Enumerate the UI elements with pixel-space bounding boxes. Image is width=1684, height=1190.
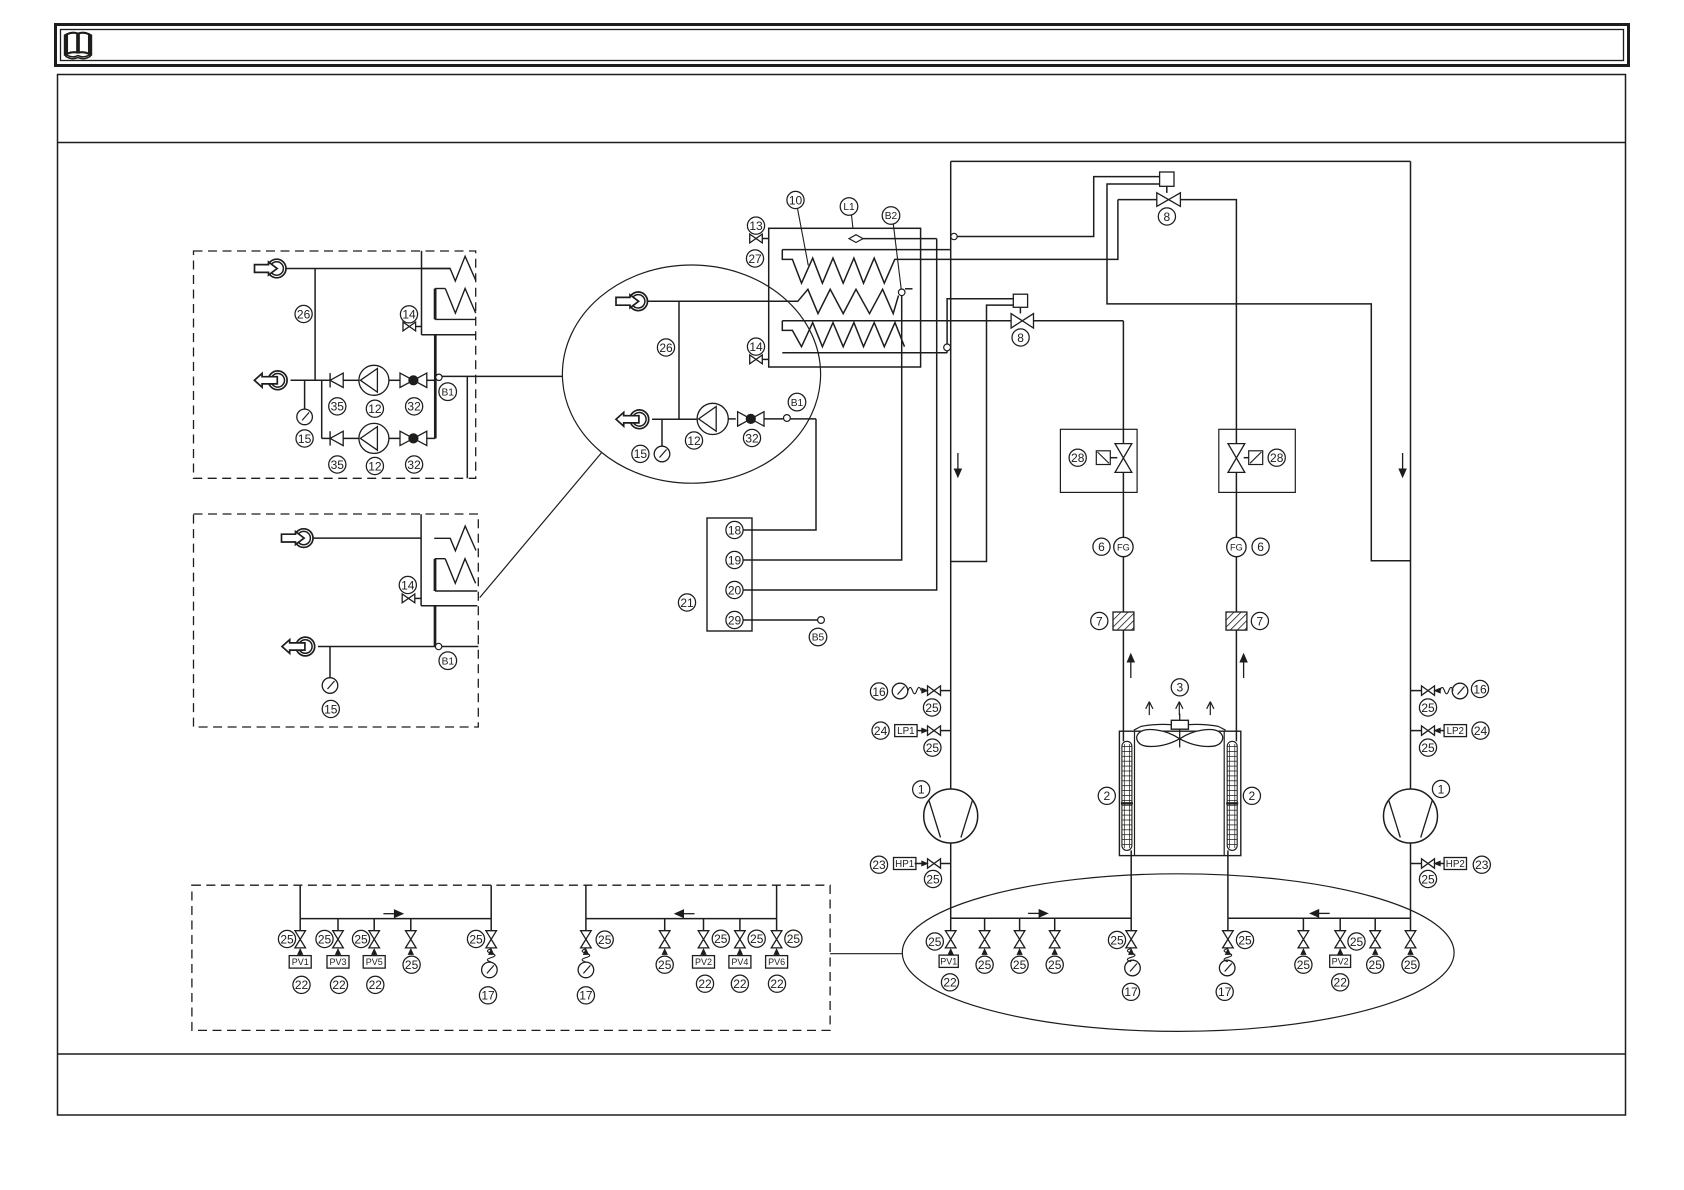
valve 32 (row 1) <box>400 373 427 387</box>
svg-text:32: 32 <box>745 431 759 445</box>
badge 23 (left) <box>870 856 887 873</box>
service valve 25 (spare right) <box>659 919 670 955</box>
badge 25 (PV5) <box>352 930 369 947</box>
tank coil 1 <box>782 250 895 284</box>
wire: box 1 corner drop <box>466 376 468 478</box>
pressure gauge 17 (box-right) <box>578 962 594 978</box>
badge 10 with callout <box>787 191 808 265</box>
wire: pump to valve 32 (row 2) <box>389 437 400 439</box>
dashed enclosure box 1 (indoor unit option A) <box>194 251 476 478</box>
check valve 35 (row 2) <box>330 431 343 445</box>
svg-text:25: 25 <box>1421 872 1435 886</box>
badge 6 (right) <box>1252 538 1269 555</box>
wire: HX2 outlet drop (thick) <box>434 606 437 647</box>
svg-text:16: 16 <box>872 685 886 699</box>
callout line: manifold box to bottom ellipse <box>830 953 903 955</box>
badge 25 (leg 2) <box>976 956 993 973</box>
badge 25 (PV6) <box>785 930 802 947</box>
svg-text:PV1: PV1 <box>940 956 957 966</box>
svg-text:14: 14 <box>402 308 416 322</box>
solenoid valve 28 (right) <box>1228 444 1245 473</box>
badge 2 (right) <box>1243 787 1260 804</box>
svg-text:17: 17 <box>481 989 495 1003</box>
dashed enclosure box 2 (indoor unit option B) <box>194 514 479 727</box>
flow arrow (manifold right) <box>675 910 695 918</box>
badge 25 (LP1) <box>924 739 941 756</box>
svg-text:25: 25 <box>1110 933 1124 947</box>
badge 12 (ellipse) <box>685 432 702 449</box>
svg-text:24: 24 <box>874 724 888 738</box>
hot water tank <box>769 228 921 367</box>
badge 25 (leg 4) <box>1046 956 1063 973</box>
svg-text:25: 25 <box>1048 958 1062 972</box>
svg-text:L1: L1 <box>843 202 855 213</box>
node: tank top sensor point <box>951 233 957 239</box>
svg-text:12: 12 <box>368 459 382 473</box>
badge B2 with callout <box>882 207 901 289</box>
valve 13 <box>750 234 763 243</box>
wire: PV5 stem <box>373 954 375 955</box>
service valve 25 (leg 3) <box>1014 918 1025 954</box>
svg-text:FG: FG <box>1117 543 1130 553</box>
svg-text:22: 22 <box>332 978 346 992</box>
badge 32 (ellipse) <box>743 429 760 446</box>
gauge capillary (box-right) <box>582 949 590 962</box>
svg-text:PV2: PV2 <box>695 957 712 967</box>
wire: EEV2 bulb line <box>947 299 1013 353</box>
B1 badge (box 2) <box>439 652 457 670</box>
pump 12 (ellipse) <box>697 403 728 434</box>
wire: evap outlet right <box>1227 850 1229 918</box>
pressure gauge 17 (box-left) <box>482 962 498 978</box>
svg-text:32: 32 <box>407 458 421 472</box>
flow arrow up (right evap pipe) <box>1240 654 1247 678</box>
solenoid box EEV1 <box>1160 172 1174 186</box>
svg-text:10: 10 <box>789 193 803 207</box>
wire: top header pipe <box>951 160 1411 162</box>
svg-text:B1: B1 <box>441 387 454 398</box>
wire: outlet line (box 2) <box>318 646 436 648</box>
badge 25 (HP1) <box>924 870 941 887</box>
badge 32 (row 1) <box>406 398 423 415</box>
flow arrow down (left pipe) <box>954 453 961 477</box>
svg-text:28: 28 <box>1071 451 1085 465</box>
compressor 1 (right) <box>1384 789 1438 843</box>
wire: bypass branch vertical (box 1) <box>314 269 316 381</box>
badge 17 (left) <box>1122 983 1139 1000</box>
svg-text:B1: B1 <box>791 398 804 409</box>
badge 15 (ellipse) <box>632 445 649 462</box>
badge 25 (PV2 leg) <box>1348 933 1365 950</box>
dashed enclosure (remote manifold option) <box>192 885 830 1030</box>
badge 15 (box 1) <box>296 430 313 447</box>
wire: node to EEV1 coil <box>957 177 1159 237</box>
badge 23 (right) <box>1473 856 1490 873</box>
tank coil 1 header <box>782 249 950 251</box>
svg-text:PV4: PV4 <box>731 957 748 967</box>
gauge thermometer (box 1) <box>297 409 313 425</box>
svg-text:8: 8 <box>1017 331 1024 345</box>
PV2 box (manifold) <box>1330 955 1351 967</box>
wire: right riser B <box>776 885 778 918</box>
service valve 25 (leg 2 right) <box>1298 918 1309 954</box>
badge 24 (right) <box>1472 722 1489 739</box>
svg-text:22: 22 <box>698 977 712 991</box>
B1 badge (ellipse) <box>788 393 806 411</box>
svg-text:25: 25 <box>280 932 294 946</box>
svg-text:25: 25 <box>1238 933 1252 947</box>
node B5 point <box>818 617 825 624</box>
L1 badge <box>840 198 858 216</box>
wire: left service manifold <box>951 917 1131 919</box>
defrost valve block 28 (left) <box>1060 429 1137 492</box>
badge 25 (LP2) <box>1419 739 1436 756</box>
wire: coil 1 outlet <box>895 200 1118 260</box>
badge 35 (row 1) <box>329 398 346 415</box>
valve 14 (box 1) <box>403 322 416 331</box>
wire: right riser A <box>585 885 587 918</box>
service valve 25 (spare left) <box>406 919 417 955</box>
PV3 box <box>327 956 349 969</box>
air flow arrow (left) <box>1146 702 1153 716</box>
badge 21 <box>678 594 695 611</box>
svg-text:25: 25 <box>1369 958 1383 972</box>
svg-text:18: 18 <box>728 523 742 537</box>
svg-text:24: 24 <box>1474 724 1488 738</box>
wire: valve 32 to drop (row 2) <box>427 437 436 439</box>
service valve 25 (gauge leg box-left) <box>486 919 497 955</box>
flow arrow down (right pipe) <box>1399 453 1406 477</box>
solenoid box EEV2 <box>1013 294 1027 307</box>
badge 25 (spare left) <box>403 956 420 973</box>
PV2 box <box>693 956 715 969</box>
badge 22 (PV6) <box>768 975 785 992</box>
terminal badge 19 <box>726 551 743 568</box>
wire: gauge stem (box 2) <box>329 647 331 678</box>
service valve 25 (leg 5 right) <box>1405 918 1416 954</box>
badge 2 (left) <box>1098 787 1115 804</box>
wire: gauge stem (ellipse) <box>661 419 663 446</box>
air flow arrow (right) <box>1207 702 1214 716</box>
wire: outlet line (box 1 row 1) <box>291 379 331 381</box>
wire: left riser A <box>299 885 301 918</box>
badge 25 (spare right) <box>656 956 673 973</box>
expansion valve 8 (lower) <box>1011 314 1033 328</box>
badge 25 (gauge leg left) <box>1108 931 1125 948</box>
wire: left pipe to evaporator <box>1122 630 1124 741</box>
sensor L1 diamond on tank top <box>849 215 863 243</box>
water inlet arrow (box 2) <box>282 529 314 548</box>
svg-text:25: 25 <box>1297 958 1311 972</box>
wire: valve 14 stub to HX2 <box>415 597 421 599</box>
wire: left pipe below FG <box>1122 557 1124 612</box>
pump 12 (row 1) <box>359 365 389 395</box>
svg-text:23: 23 <box>872 858 886 872</box>
wire: L1 line to terminal 20 riser <box>863 238 937 240</box>
badge 25 (PV2) <box>712 930 729 947</box>
sight glass FG (left) <box>1114 537 1133 556</box>
gauge capillary (box-left) <box>487 949 495 962</box>
badge 13 <box>747 217 764 234</box>
node 26 badge (box 1) <box>295 305 312 322</box>
badge 3 <box>1171 679 1188 696</box>
terminal badge 20 <box>726 581 743 598</box>
top title bar inner frame <box>61 30 1624 61</box>
wire: valve 13 stub <box>762 238 768 240</box>
svg-text:25: 25 <box>925 701 939 715</box>
wire: EEV1 equalizer line <box>1107 184 1411 561</box>
badge 26 (ellipse) <box>657 339 674 356</box>
svg-text:25: 25 <box>787 932 801 946</box>
wire: inlet line to HX2 <box>313 537 422 539</box>
service valve 25 (PV2 leg) <box>1335 918 1346 954</box>
terminal badge 29 <box>726 611 743 628</box>
svg-text:7: 7 <box>1096 614 1103 628</box>
wire: node to box edge (box 2) <box>442 646 479 648</box>
valve 32 (ellipse) <box>738 412 764 426</box>
badge 22 (PV3) <box>330 976 347 993</box>
valve 14 badge (box 1) <box>400 306 417 323</box>
svg-text:27: 27 <box>748 252 762 266</box>
svg-text:25: 25 <box>750 932 764 946</box>
badge 22 (PV1) <box>293 976 310 993</box>
badge 32 (row 2) <box>406 456 423 473</box>
wire: valve 32 to node (row 1) <box>427 379 436 381</box>
detail ellipse (hydraulic module zoom) <box>562 265 820 483</box>
svg-text:25: 25 <box>598 933 612 947</box>
wire: pump to valve 32 (row 1) <box>389 379 400 381</box>
svg-text:25: 25 <box>318 932 332 946</box>
service valve 25 (gauge leg right) <box>1223 918 1234 954</box>
service valve 25 (PV6) <box>771 919 782 955</box>
badge 28 (left) <box>1069 449 1086 466</box>
solenoid valve 28 (left) <box>1115 444 1132 473</box>
defrost valve block 28 (right) <box>1219 429 1296 492</box>
wire: gauge stem (box 1) <box>304 380 306 409</box>
wire: box 1 to detail ellipse <box>442 375 563 377</box>
wire: row 2 line <box>322 437 330 439</box>
svg-text:2: 2 <box>1249 789 1256 803</box>
top title bar outer frame <box>56 25 1629 66</box>
badge 25 (HP2) <box>1419 870 1436 887</box>
svg-text:25: 25 <box>1421 741 1435 755</box>
footer divider line <box>58 1053 1626 1055</box>
compressor 1 (left) <box>924 789 978 843</box>
flow arrow (right manifold) <box>1310 910 1330 918</box>
evaporator casing <box>1119 731 1240 855</box>
svg-text:29: 29 <box>728 613 742 627</box>
water inlet arrow (box 1) <box>255 259 287 278</box>
wire: right main pipe down <box>1410 161 1412 789</box>
wire: PV2 stem <box>1339 954 1341 955</box>
tank coil 3 <box>782 321 904 347</box>
svg-text:HP2: HP2 <box>1446 859 1465 870</box>
wire: HX1 outlet drop (thick) <box>434 335 437 439</box>
wire: compressor 2 discharge <box>1410 843 1412 918</box>
B5 badge <box>809 628 827 646</box>
service valve 25 (gauge leg box-right) <box>581 919 592 955</box>
badge 22 (PV1 leg) <box>941 974 958 991</box>
pressure switch HP1 <box>894 858 951 871</box>
callout line: ellipse to box 2 <box>480 453 602 598</box>
wire: branch down to row 2 <box>321 380 323 438</box>
gauge thermometer (ellipse) <box>654 446 670 462</box>
service valve 25 (PV4) <box>735 919 746 955</box>
svg-text:26: 26 <box>297 307 311 321</box>
service valve 25 (leg 4) <box>1049 918 1060 954</box>
detail ellipse (service manifold zoom) <box>902 874 1454 1032</box>
svg-text:22: 22 <box>943 976 957 990</box>
service valve 25 (gauge leg left) <box>1126 918 1137 954</box>
node B2 sensor point <box>898 289 905 296</box>
tank coil 2 <box>769 289 899 313</box>
pressure switch LP2 <box>1411 725 1467 738</box>
wire: PV3 stem <box>337 954 339 955</box>
PV1 box <box>289 956 311 969</box>
wire: valve 14 stub to HX1 <box>416 326 422 328</box>
badge 28 (right) <box>1268 449 1285 466</box>
svg-text:22: 22 <box>1334 976 1348 990</box>
svg-text:25: 25 <box>926 872 940 886</box>
wire: PV1 stem <box>950 954 952 955</box>
badge 27 <box>746 250 763 267</box>
filter drier 7 (right) <box>1226 612 1247 630</box>
service gauge 16 (right) <box>1411 680 1489 698</box>
svg-text:26: 26 <box>659 341 673 355</box>
wire: terminal 20 to L1 line <box>743 239 937 590</box>
badge 22 (PV2 leg) <box>1332 974 1349 991</box>
svg-text:2: 2 <box>1103 789 1110 803</box>
badge 25 (leg 3) <box>1011 956 1028 973</box>
flow arrow (manifold left) <box>383 910 403 918</box>
wire: coil to valve (right) <box>1244 457 1249 459</box>
svg-text:35: 35 <box>331 400 345 414</box>
badge 6 (left) <box>1093 538 1110 555</box>
badge 25 (gauge leg right) <box>1236 931 1253 948</box>
svg-text:LP2: LP2 <box>1447 726 1464 737</box>
badge 8 (lower) <box>1012 329 1029 346</box>
badge 25 (gauge leg box-right) <box>596 931 613 948</box>
badge 25 (PV3) <box>316 930 333 947</box>
wire: left evap pipe upper <box>1122 321 1124 444</box>
svg-text:3: 3 <box>1176 681 1183 695</box>
service valve 25 (PV2) <box>698 919 709 955</box>
svg-text:14: 14 <box>401 578 415 592</box>
wire: coil to valve (left) <box>1110 457 1117 459</box>
wire: left evap pipe mid <box>1122 472 1124 537</box>
wire: EEV2 equalizer <box>951 305 1014 561</box>
wire: PV1 stem (box) <box>299 954 301 955</box>
wire: node to riser (ellipse) <box>790 418 816 420</box>
svg-text:32: 32 <box>407 400 421 414</box>
gauge thermometer (box 2) <box>322 678 338 694</box>
svg-text:15: 15 <box>298 432 312 446</box>
wire: valve 8 lower right leg <box>1034 320 1124 322</box>
service valve 25 (PV1 leg) <box>945 918 956 954</box>
wire: PV2 stem (box) <box>703 954 705 955</box>
badge 25 (leg 2 right) <box>1295 956 1312 973</box>
svg-text:LP1: LP1 <box>897 726 914 737</box>
wire: to pump 12 (row 1) <box>343 379 359 381</box>
svg-text:14: 14 <box>749 340 763 354</box>
gauge capillary (left) <box>1127 949 1135 962</box>
solenoid coil square (left) <box>1096 451 1110 465</box>
wire: ellipse outlet line <box>652 418 697 420</box>
svg-text:B1: B1 <box>442 656 455 667</box>
wire: evap outlet left <box>1130 850 1132 918</box>
wire: PV4 stem <box>739 954 741 955</box>
service gauge 16 (left) <box>870 683 950 700</box>
wire: coil 1 header to main pipe <box>949 249 952 251</box>
svg-text:25: 25 <box>658 958 672 972</box>
flow arrow up (left evap pipe) <box>1127 654 1134 678</box>
svg-text:35: 35 <box>331 458 345 472</box>
badge 25 (leg 5 right) <box>1402 956 1419 973</box>
service valve 25 (leg 4 right) <box>1370 918 1381 954</box>
svg-text:1: 1 <box>918 783 925 797</box>
pressure switch LP1 <box>895 725 951 738</box>
badge 25 (leg 4 right) <box>1367 956 1384 973</box>
badge 17 (right) <box>1216 983 1233 1000</box>
node B1 sensor point (box 2) <box>435 643 441 649</box>
badge 17 (box-left) <box>479 987 496 1004</box>
svg-text:17: 17 <box>1124 985 1138 999</box>
wire: terminal 19 to node B2 <box>743 296 902 560</box>
terminal badge 18 <box>726 521 743 538</box>
badge 25 (PV1) <box>278 930 295 947</box>
svg-text:25: 25 <box>928 935 942 949</box>
svg-text:21: 21 <box>680 596 694 610</box>
svg-text:25: 25 <box>714 932 728 946</box>
flow arrow (left manifold) <box>1028 910 1048 918</box>
wire: valve 32 to node (ellipse) <box>764 418 784 420</box>
wire: B2 tick <box>905 288 913 290</box>
service valve 25 (PV3) <box>333 919 344 955</box>
svg-text:22: 22 <box>295 978 309 992</box>
wire: terminal 29 lead <box>743 619 818 621</box>
pump 12 (row 2) <box>359 423 389 453</box>
badge 17 (box-right) <box>577 987 594 1004</box>
svg-text:8: 8 <box>1164 210 1171 224</box>
svg-text:PV2: PV2 <box>1332 956 1349 966</box>
node B1 sensor point (ellipse) <box>784 415 791 422</box>
evaporator right column divider <box>1223 731 1225 855</box>
wire: right evap pipe mid <box>1235 472 1237 537</box>
svg-text:15: 15 <box>634 447 648 461</box>
evaporator finned coil (right) <box>1226 741 1238 850</box>
wire: manifold line (right) <box>586 918 777 920</box>
wire: compressor 1 discharge <box>950 843 952 918</box>
svg-text:FG: FG <box>1230 543 1243 553</box>
svg-text:B5: B5 <box>812 633 825 644</box>
wire: pump to valve 32 (ellipse) <box>728 418 736 420</box>
solenoid coil square (right) <box>1249 451 1263 465</box>
svg-text:PV6: PV6 <box>768 957 785 967</box>
air flow arrow (middle) <box>1176 702 1183 716</box>
svg-text:13: 13 <box>749 219 763 233</box>
svg-text:28: 28 <box>1270 451 1284 465</box>
tank coil 3 return header <box>782 352 947 354</box>
terminal block <box>707 518 752 631</box>
badge 12 (row 2) <box>366 457 383 474</box>
water outlet arrow (ellipse) <box>616 410 649 429</box>
wire: right pipe to evaporator <box>1235 630 1237 741</box>
svg-text:25: 25 <box>1013 958 1027 972</box>
wire: valve 8 upper left leg <box>1118 199 1157 201</box>
wire: right service manifold <box>1228 917 1411 919</box>
evaporator left column divider <box>1134 731 1136 855</box>
svg-text:12: 12 <box>368 402 382 416</box>
